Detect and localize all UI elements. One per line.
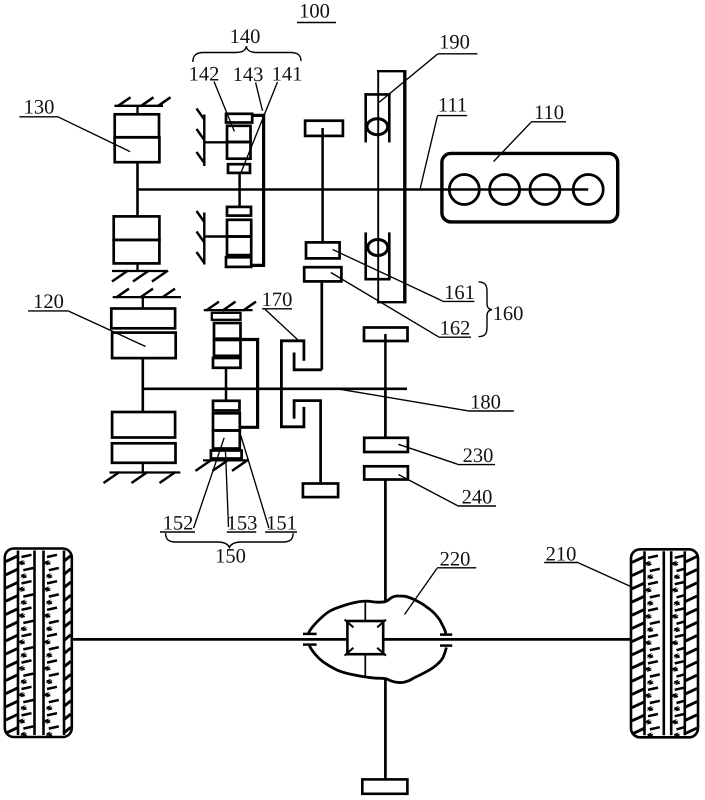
stem shaft2 to 230 [384, 389, 387, 438]
svg-text:111: 111 [438, 95, 467, 117]
stem 170 down to gear [319, 401, 322, 484]
stem clutch 150 [225, 368, 228, 401]
brake connector lower [204, 235, 227, 237]
differential housing 220 lower shell [309, 646, 446, 683]
gear 162 rect [304, 267, 341, 281]
square corner ticks [345, 620, 354, 628]
main shaft row2 [143, 387, 407, 390]
leader 130 [59, 117, 131, 152]
hatch cap below 150 [203, 459, 249, 461]
dog clutch 170 upper inner jaw [294, 353, 322, 370]
gear rect above shaft x322 [305, 121, 343, 136]
svg-text:141: 141 [272, 64, 303, 86]
stem ground-130 [136, 106, 138, 115]
stem gear to shaft [321, 128, 324, 190]
clutch 150 upper plates [212, 313, 241, 320]
leader 143 [256, 83, 263, 111]
leader 162 [331, 273, 439, 337]
tire left outline [5, 549, 72, 738]
leader 220 [405, 568, 438, 614]
svg-text:230: 230 [463, 445, 494, 467]
motor 120 upper rects [111, 309, 175, 329]
svg-text:240: 240 [462, 487, 493, 509]
ground above motor 130 [115, 105, 164, 107]
svg-text:140: 140 [230, 26, 261, 48]
gear 240 rect [364, 466, 408, 479]
underbrace 150 [166, 533, 294, 547]
svg-text:160: 160 [493, 303, 524, 325]
svg-text:130: 130 [24, 97, 55, 119]
output shaft down to differential [384, 480, 387, 602]
dog clutch 170 lower inner jaw [294, 401, 322, 419]
leader 141 [241, 82, 278, 173]
stem gear to shaft2 [384, 334, 387, 389]
leader 152 [194, 438, 225, 528]
tire right outline [631, 549, 698, 737]
stem 162 to dog clutch [320, 281, 323, 369]
motor 130 lower rects [114, 216, 160, 240]
output shaft below differential [384, 679, 387, 780]
leader 142 [214, 82, 234, 132]
leader 151 [241, 436, 269, 529]
svg-text:190: 190 [439, 32, 470, 54]
stem motor 120 [142, 358, 145, 412]
motor 120 lower rects [112, 412, 175, 438]
svg-text:170: 170 [262, 289, 293, 311]
leader 153 [226, 452, 229, 527]
sprocket top ellipse [367, 119, 388, 135]
sprocket bottom legs+cap [364, 232, 367, 279]
coupling bars right [440, 633, 452, 636]
svg-text:153: 153 [227, 513, 258, 535]
svg-text:150: 150 [215, 546, 246, 568]
brace for 140 group [193, 46, 301, 62]
brace 160 [479, 282, 493, 337]
brake wall upper 142 [203, 115, 205, 167]
leader 180 [337, 389, 468, 411]
ground above motor 120 [113, 296, 181, 298]
svg-text:120: 120 [33, 291, 64, 313]
leader 110 [494, 122, 531, 161]
leader 240 [398, 475, 457, 506]
drum 141 bracket [252, 115, 263, 265]
leader 230 [398, 444, 457, 464]
leader 210 [579, 563, 635, 588]
pinion axis lower [364, 654, 366, 675]
axle right [383, 638, 631, 641]
ground below motor 120 [110, 471, 181, 473]
tire left tread marks [6, 556, 19, 562]
engine cylinders [449, 175, 479, 205]
svg-text:152: 152 [163, 513, 194, 535]
stem 120 to ground [142, 463, 144, 473]
drum 151 bracket [241, 340, 258, 428]
engine block 110 [442, 153, 618, 222]
svg-text:100: 100 [299, 1, 330, 23]
leader 170 [265, 309, 299, 340]
svg-text:162: 162 [440, 318, 471, 340]
tire right ribs [643, 551, 646, 735]
stem motor 130 [136, 162, 139, 216]
svg-text:180: 180 [470, 392, 501, 414]
main shaft row1 [138, 188, 589, 191]
stem 130 to ground [136, 263, 138, 271]
hatch cap above 150 [204, 309, 253, 311]
gear 161 rect [306, 242, 340, 258]
dog clutch 170 outer jaw [281, 341, 304, 427]
clutch 142 upper plates [226, 114, 252, 123]
gear rect 180col [364, 328, 408, 342]
stem clutch 142 [238, 173, 241, 207]
svg-text:143: 143 [233, 64, 264, 86]
brake wall lower 142 [203, 213, 205, 265]
stem shaft to 161 [321, 190, 324, 243]
svg-text:151: 151 [266, 513, 297, 535]
ground below motor 130 [112, 270, 166, 272]
tire right tread marks [632, 556, 645, 562]
axle left [72, 638, 348, 641]
svg-text:110: 110 [534, 102, 564, 124]
stem ground-120 [142, 297, 144, 308]
differential housing 220 upper shell [309, 596, 446, 633]
coupling bars left [303, 633, 317, 636]
motor 130 upper rects [115, 114, 159, 137]
belt right edge thick [403, 70, 406, 303]
sprocket bottom ellipse [368, 240, 388, 256]
differential spider square [347, 621, 383, 654]
tire left ribs [17, 551, 20, 736]
brake connector upper [204, 141, 227, 143]
clutch 150 lower plates [213, 401, 240, 411]
gear 230 rect [364, 438, 408, 452]
sprocket top cap+legs [364, 93, 390, 96]
bottom gear rect [362, 779, 407, 793]
belt loop 190 [377, 70, 379, 303]
gear rect below 170 [303, 484, 338, 498]
leader 190 [378, 54, 437, 103]
leader 111 [420, 116, 437, 189]
pinion axis upper [364, 601, 366, 621]
clutch 142 lower plates [227, 207, 251, 216]
leader 161 [333, 250, 443, 302]
leader 120 [69, 311, 146, 346]
